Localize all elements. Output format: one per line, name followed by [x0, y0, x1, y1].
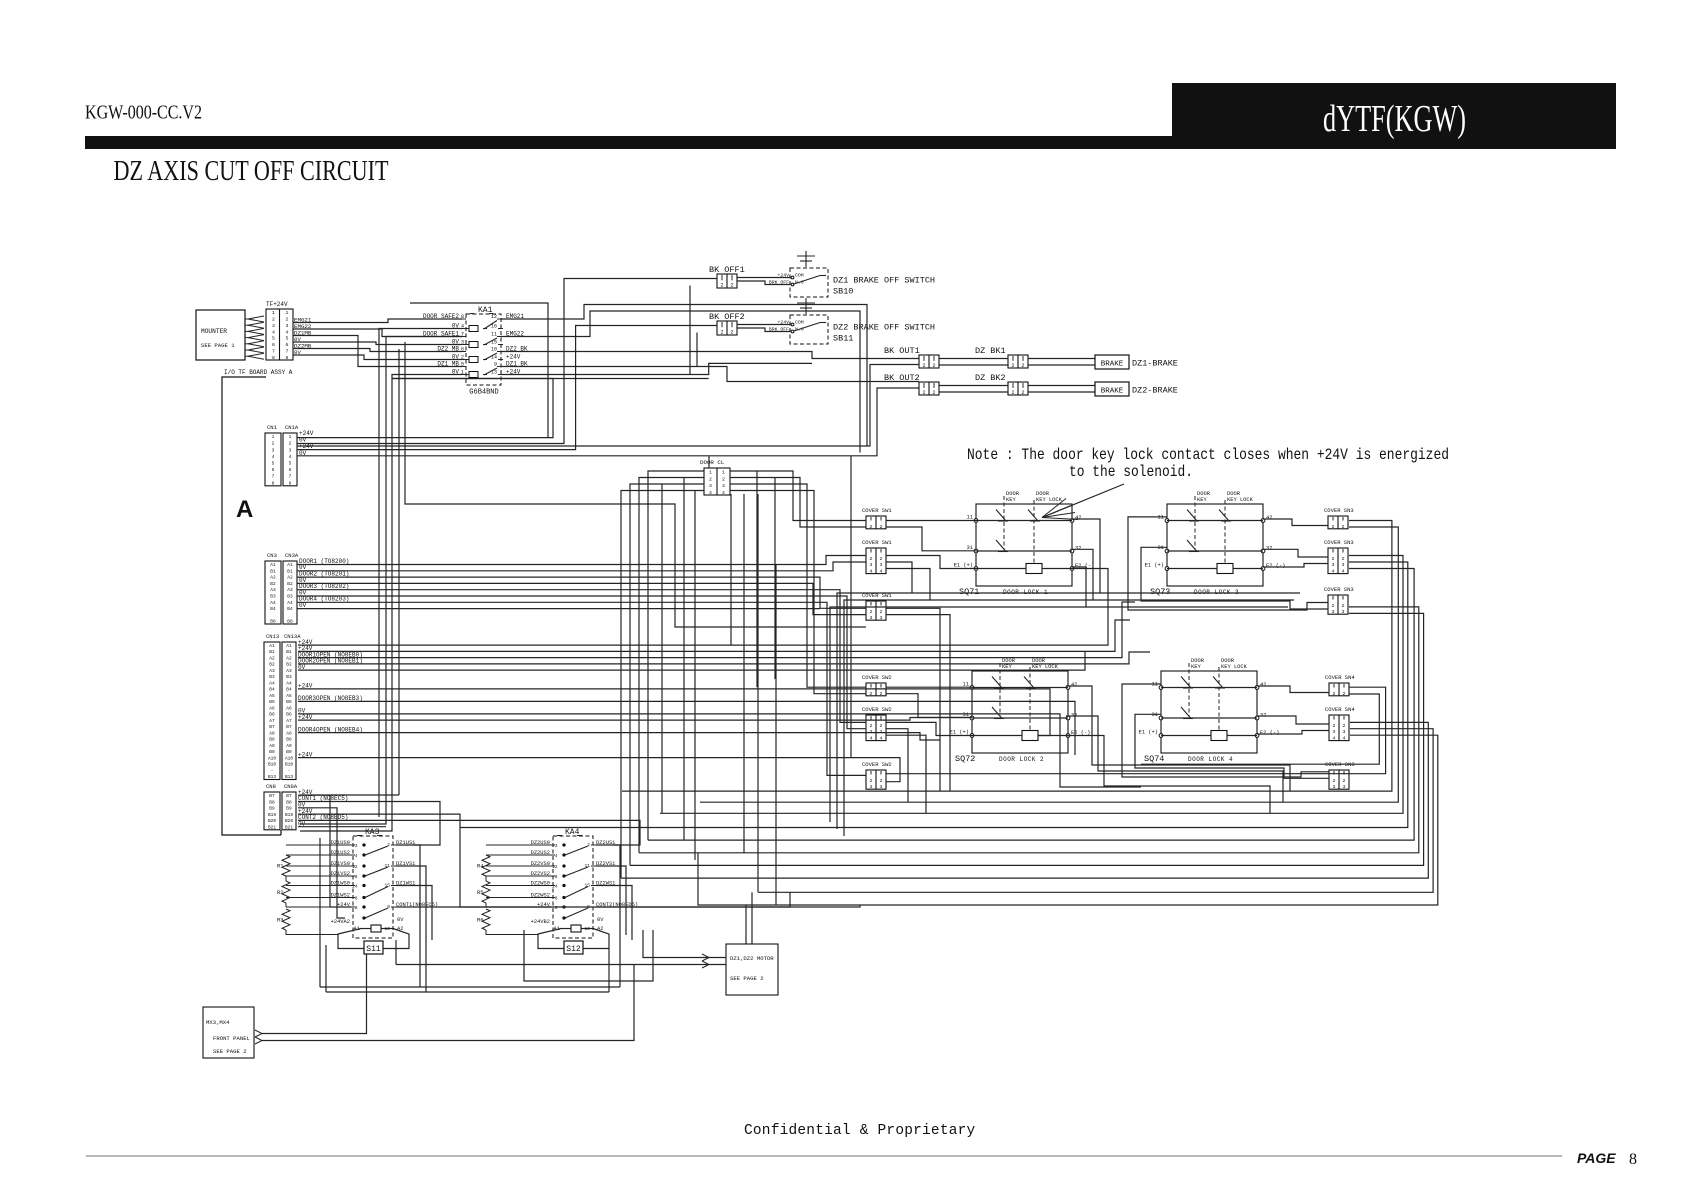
svg-text:R5: R5 [477, 890, 483, 896]
svg-text:2: 2 [1333, 778, 1336, 784]
svg-text:8: 8 [355, 905, 358, 911]
svg-text:DZ BK2: DZ BK2 [975, 373, 1006, 383]
svg-text:KEY: KEY [1197, 497, 1207, 503]
svg-text:2: 2 [932, 390, 935, 396]
svg-text:3: 3 [880, 562, 883, 568]
svg-text:3: 3 [289, 447, 292, 453]
svg-text:B19: B19 [285, 812, 293, 818]
svg-text:31: 31 [1152, 712, 1158, 718]
svg-text:A8: A8 [269, 730, 275, 736]
svg-text:1: 1 [272, 310, 275, 316]
svg-text:COVER SN3: COVER SN3 [1324, 507, 1354, 514]
svg-text:A4: A4 [287, 600, 293, 606]
svg-text:11: 11 [491, 332, 497, 338]
svg-text:S12: S12 [566, 945, 581, 954]
svg-text:A2: A2 [287, 575, 293, 581]
svg-text:E1 (+): E1 (+) [1139, 730, 1158, 736]
svg-text:S11: S11 [366, 945, 381, 954]
box MX3,MX4 FRONT PANEL [203, 1007, 254, 1058]
svg-text:B9: B9 [286, 749, 292, 755]
note pointer arrow [1042, 484, 1124, 518]
black banner [1172, 83, 1616, 148]
svg-text:11: 11 [967, 515, 973, 521]
svg-text:E1 (+): E1 (+) [954, 563, 973, 569]
svg-text:B8: B8 [269, 799, 275, 805]
svg-text:SEE PAGE 2: SEE PAGE 2 [730, 975, 764, 982]
mounter box [196, 310, 245, 360]
svg-text:2: 2 [1021, 390, 1024, 396]
svg-text:8: 8 [355, 874, 358, 880]
svg-text:8: 8 [272, 480, 275, 486]
wire group: KA1 right to BK OUT rows [501, 352, 919, 359]
svg-text:DOOR CL: DOOR CL [700, 459, 725, 466]
svg-text:DZ2-BRAKE: DZ2-BRAKE [1132, 386, 1178, 396]
svg-text:3: 3 [355, 843, 358, 849]
svg-text:B7: B7 [286, 793, 292, 799]
door lock SQ72 [972, 671, 1068, 753]
svg-text:KEY LOCK: KEY LOCK [1227, 497, 1254, 503]
svg-text:to the solenoid.: to the solenoid. [1069, 463, 1193, 481]
svg-text:G6B4BND: G6B4BND [469, 389, 498, 397]
svg-text:6: 6 [555, 896, 558, 902]
svg-text:B8: B8 [286, 737, 292, 743]
svg-text:4: 4 [709, 490, 712, 496]
svg-text:B7: B7 [269, 724, 275, 730]
svg-text:0V: 0V [397, 917, 404, 923]
wire group: bottom loops / motor / front panel [419, 930, 421, 987]
svg-text:3: 3 [1333, 729, 1336, 735]
svg-text:8: 8 [555, 905, 558, 911]
svg-text:A4: A4 [286, 680, 292, 686]
svg-text:6: 6 [272, 342, 275, 348]
svg-text:4: 4 [1333, 736, 1336, 742]
svg-text:2: 2 [870, 556, 873, 562]
svg-text:2: 2 [1021, 363, 1024, 369]
svg-text:SQ71: SQ71 [959, 587, 979, 597]
footer rule [86, 1155, 1562, 1157]
svg-text:A3: A3 [286, 668, 292, 674]
svg-text:COVER SN4: COVER SN4 [1325, 674, 1355, 681]
svg-text:B8: B8 [287, 619, 293, 625]
wire group: CN13A rows east [298, 569, 1108, 646]
svg-text:B2: B2 [287, 581, 293, 587]
wire group: left vertical bundle [379, 329, 462, 818]
svg-text:2: 2 [1333, 723, 1336, 729]
svg-text:PAGE: PAGE [1577, 1150, 1616, 1166]
svg-text:B2: B2 [269, 662, 275, 668]
svg-text:B9: B9 [269, 806, 275, 812]
svg-text:1: 1 [272, 434, 275, 440]
svg-text:Confidential & Proprietary: Confidential & Proprietary [744, 1123, 976, 1139]
svg-text:CN8: CN8 [266, 783, 276, 790]
svg-text:A5: A5 [286, 693, 292, 699]
svg-text:2: 2 [1342, 603, 1345, 609]
svg-text:B2: B2 [286, 662, 292, 668]
svg-text:B1: B1 [269, 649, 275, 655]
svg-text:COM: COM [795, 319, 804, 325]
wire group: DOOR CL east drops to COVER SW [730, 471, 866, 521]
svg-text:B3: B3 [269, 674, 275, 680]
svg-text:2: 2 [1333, 691, 1336, 697]
door lock SQ73 [1167, 504, 1263, 586]
svg-text:4: 4 [870, 569, 873, 575]
svg-text:SEE PAGE 2: SEE PAGE 2 [213, 1048, 247, 1055]
svg-text:2: 2 [870, 691, 873, 697]
svg-text:11: 11 [963, 682, 969, 688]
svg-text:A6: A6 [269, 705, 275, 711]
svg-text:2: 2 [880, 723, 883, 729]
wire group: CN3A rows east [297, 556, 866, 565]
svg-text:-: - [271, 769, 274, 774]
svg-text:0V: 0V [299, 602, 307, 609]
svg-text:3: 3 [1332, 562, 1335, 568]
svg-text:COVER SW1: COVER SW1 [862, 539, 892, 546]
svg-text:COVER SW2: COVER SW2 [862, 674, 892, 681]
box DZ1,DZ2 MOTOR [726, 944, 778, 995]
svg-text:2: 2 [587, 842, 590, 848]
svg-text:32: 32 [1266, 546, 1272, 552]
svg-text:B3: B3 [286, 674, 292, 680]
svg-text:9: 9 [387, 904, 390, 910]
svg-text:12: 12 [552, 864, 558, 870]
door lock SQ71 [976, 504, 1072, 586]
svg-text:SQ72: SQ72 [955, 754, 975, 764]
svg-text:3: 3 [870, 615, 873, 621]
svg-text:B21: B21 [268, 824, 276, 830]
svg-text:3: 3 [555, 843, 558, 849]
svg-text:COVER SN3: COVER SN3 [1324, 539, 1354, 546]
svg-text:KEY LOCK: KEY LOCK [1221, 664, 1248, 670]
svg-text:dYTF(KGW): dYTF(KGW) [1323, 98, 1466, 140]
svg-text:2: 2 [880, 609, 883, 615]
svg-text:DOOR3 (TO8202): DOOR3 (TO8202) [299, 583, 349, 590]
wire group: bottom-right bundle [1141, 694, 1379, 764]
svg-text:B1: B1 [287, 568, 293, 574]
svg-text:3: 3 [870, 784, 873, 790]
svg-text:A2: A2 [270, 575, 276, 581]
svg-text:32: 32 [1075, 546, 1081, 552]
svg-text:4: 4 [1343, 736, 1346, 742]
svg-text:MOUNTER: MOUNTER [201, 328, 227, 335]
svg-text:2: 2 [880, 778, 883, 784]
svg-text:A10: A10 [268, 755, 276, 761]
svg-text:B8: B8 [286, 799, 292, 805]
KA1 coils [469, 326, 478, 332]
svg-text:4: 4 [722, 490, 725, 496]
svg-text:A7: A7 [269, 718, 275, 724]
svg-text:2: 2 [1342, 556, 1345, 562]
wires into motor box top [745, 905, 747, 944]
svg-text:B2: B2 [270, 581, 276, 587]
svg-text:7: 7 [289, 474, 292, 480]
svg-text:2: 2 [1011, 363, 1014, 369]
wire group: big loop around KA1 [410, 303, 548, 438]
svg-text:B10: B10 [285, 762, 293, 768]
svg-text:9: 9 [494, 362, 497, 368]
svg-text:B6: B6 [269, 712, 275, 718]
svg-text:A10: A10 [285, 755, 293, 761]
svg-text:A1: A1 [286, 643, 292, 649]
svg-text:DZ1 BRAKE OFF SWITCH: DZ1 BRAKE OFF SWITCH [833, 276, 935, 286]
svg-text:R2: R2 [277, 890, 283, 896]
svg-text:2: 2 [1343, 691, 1346, 697]
svg-text:SQ73: SQ73 [1150, 587, 1170, 597]
wire group: DOOR CL west drops to bottom bundle [648, 471, 704, 840]
svg-text:1: 1 [709, 470, 712, 476]
svg-text:B5: B5 [269, 699, 275, 705]
svg-text:-: - [288, 769, 291, 774]
svg-text:2: 2 [870, 524, 873, 530]
svg-text:KEY: KEY [1006, 497, 1016, 503]
svg-text:31: 31 [967, 545, 973, 551]
svg-text:B4: B4 [287, 606, 293, 612]
svg-text:2: 2 [720, 330, 723, 336]
wires mounter to TF connector [245, 318, 250, 320]
svg-text:A1: A1 [270, 562, 276, 568]
svg-text:3: 3 [880, 615, 883, 621]
svg-text:MX3,MX4: MX3,MX4 [206, 1019, 230, 1026]
svg-text:3: 3 [1343, 729, 1346, 735]
svg-text:2: 2 [870, 723, 873, 729]
svg-text:KEY LOCK: KEY LOCK [1032, 664, 1059, 670]
svg-text:+24VA2: +24VA2 [331, 919, 350, 925]
svg-text:3: 3 [722, 483, 725, 489]
svg-text:SEE PAGE 1: SEE PAGE 1 [201, 342, 235, 349]
svg-text:3: 3 [1332, 609, 1335, 615]
svg-text:COM: COM [795, 272, 804, 278]
switch box S11 [338, 929, 364, 949]
svg-text:8: 8 [272, 355, 275, 361]
key cross symbol [805, 251, 807, 267]
svg-text:B6: B6 [286, 712, 292, 718]
svg-text:10: 10 [491, 347, 497, 353]
svg-text:SQ74: SQ74 [1144, 754, 1164, 764]
svg-text:KEY LOCK: KEY LOCK [1036, 497, 1063, 503]
KA1 contacts [482, 328, 484, 330]
svg-text:DZ2 BRAKE OFF SWITCH: DZ2 BRAKE OFF SWITCH [833, 323, 935, 333]
svg-text:1: 1 [286, 310, 289, 316]
svg-text:3: 3 [286, 323, 289, 329]
svg-text:A1: A1 [269, 643, 275, 649]
svg-text:2: 2 [1332, 524, 1335, 530]
svg-text:3: 3 [870, 562, 873, 568]
wire group: CN1A to brake-off connectors [297, 379, 553, 438]
svg-text:31: 31 [1158, 545, 1164, 551]
svg-text:DZ BK1: DZ BK1 [975, 346, 1006, 356]
svg-text:B8: B8 [269, 737, 275, 743]
svg-text:BRAKE: BRAKE [1101, 388, 1124, 396]
svg-text:2: 2 [387, 842, 390, 848]
svg-text:B8: B8 [270, 619, 276, 625]
svg-text:2: 2 [922, 363, 925, 369]
twisted pair chevrons [248, 316, 264, 322]
svg-text:6: 6 [272, 467, 275, 473]
svg-text:A6: A6 [286, 705, 292, 711]
switch box S12 [538, 929, 564, 949]
svg-text:7: 7 [272, 348, 275, 354]
svg-text:COVER SN4: COVER SN4 [1325, 706, 1355, 713]
svg-text:3: 3 [880, 784, 883, 790]
svg-text:2: 2 [1332, 556, 1335, 562]
svg-text:B13: B13 [268, 774, 276, 780]
brake box DZ1-BRAKE [1095, 355, 1129, 369]
svg-text:3: 3 [1342, 562, 1345, 568]
svg-text:CN3A: CN3A [285, 552, 299, 559]
svg-text:2: 2 [730, 330, 733, 336]
svg-text:12: 12 [491, 314, 497, 320]
svg-text:2: 2 [730, 283, 733, 289]
svg-text:6: 6 [355, 896, 358, 902]
svg-text:A8: A8 [286, 730, 292, 736]
svg-text:B3: B3 [287, 593, 293, 599]
svg-text:8: 8 [286, 355, 289, 361]
door lock SQ74 [1161, 671, 1257, 753]
svg-text:B5: B5 [286, 699, 292, 705]
svg-text:SB11: SB11 [833, 334, 853, 344]
svg-text:CN8A: CN8A [284, 783, 298, 790]
svg-text:4: 4 [555, 853, 558, 859]
svg-text:B10: B10 [268, 762, 276, 768]
svg-text:3: 3 [272, 323, 275, 329]
svg-text:4: 4 [355, 853, 358, 859]
svg-text:6: 6 [289, 467, 292, 473]
svg-text:KGW-000-CC.V2: KGW-000-CC.V2 [85, 102, 202, 124]
svg-text:4: 4 [272, 329, 275, 335]
svg-text:3: 3 [1343, 784, 1346, 790]
black rule [85, 136, 1616, 149]
svg-text:BRAKE: BRAKE [1101, 361, 1124, 369]
svg-text:BK OUT1: BK OUT1 [884, 346, 920, 356]
switch SB10 [790, 268, 828, 297]
svg-text:A9: A9 [286, 743, 292, 749]
wire group: resistor nets [286, 844, 351, 846]
svg-text:2: 2 [1343, 778, 1346, 784]
svg-text:4: 4 [1342, 569, 1345, 575]
svg-text:4: 4 [272, 454, 275, 460]
svg-text:A4: A4 [269, 680, 275, 686]
svg-text:12: 12 [352, 864, 358, 870]
svg-text:42: 42 [1260, 682, 1266, 688]
svg-text:3: 3 [1333, 784, 1336, 790]
key cross symbol [805, 298, 807, 314]
svg-text:1: 1 [289, 434, 292, 440]
svg-text:2: 2 [1342, 524, 1345, 530]
svg-text:FRONT PANEL: FRONT PANEL [213, 1035, 250, 1042]
svg-text:COVER SW2: COVER SW2 [862, 761, 892, 768]
svg-text:2: 2 [289, 441, 292, 447]
svg-text:CN3: CN3 [267, 552, 277, 559]
svg-text:E1 (+): E1 (+) [1145, 563, 1164, 569]
svg-text:+24VB2: +24VB2 [531, 919, 550, 925]
svg-text:DOOR1 (TO8200): DOOR1 (TO8200) [299, 558, 349, 565]
svg-text:DZ AXIS CUT OFF CIRCUIT: DZ AXIS CUT OFF CIRCUIT [114, 156, 389, 187]
svg-text:2: 2 [272, 317, 275, 323]
svg-text:8: 8 [1629, 1151, 1637, 1168]
svg-text:E2 (-): E2 (-) [1266, 563, 1285, 569]
svg-text:7: 7 [286, 348, 289, 354]
svg-text:DZ1-BRAKE: DZ1-BRAKE [1132, 359, 1178, 369]
svg-text:2: 2 [709, 476, 712, 482]
svg-text:2: 2 [932, 363, 935, 369]
svg-text:2: 2 [1343, 723, 1346, 729]
svg-text:5: 5 [272, 336, 275, 342]
wire group: COVER SW right sides to door locks [886, 520, 976, 522]
svg-text:2: 2 [880, 691, 883, 697]
svg-text:B9: B9 [286, 806, 292, 812]
svg-text:SB10: SB10 [833, 287, 853, 297]
svg-text:4: 4 [289, 454, 292, 460]
svg-text:B19: B19 [268, 812, 276, 818]
svg-text:KEY: KEY [1191, 664, 1201, 670]
svg-text:CN13: CN13 [266, 633, 279, 640]
svg-text:A3: A3 [270, 587, 276, 593]
svg-text:3: 3 [709, 483, 712, 489]
svg-text:1: 1 [722, 470, 725, 476]
svg-text:14: 14 [552, 884, 558, 890]
svg-text:4: 4 [880, 569, 883, 575]
svg-text:A9: A9 [269, 743, 275, 749]
svg-text:4: 4 [870, 736, 873, 742]
svg-text:A1: A1 [287, 562, 293, 568]
svg-text:2: 2 [272, 441, 275, 447]
svg-text:42: 42 [1075, 515, 1081, 521]
svg-text:4: 4 [1332, 569, 1335, 575]
svg-text:2: 2 [922, 390, 925, 396]
svg-text:5: 5 [272, 461, 275, 467]
svg-text:2: 2 [1332, 603, 1335, 609]
svg-text:B4: B4 [269, 687, 275, 693]
svg-text:A3: A3 [287, 587, 293, 593]
svg-text:+24V: +24V [506, 353, 521, 360]
svg-text:5: 5 [289, 461, 292, 467]
svg-text:2: 2 [880, 524, 883, 530]
svg-text:5: 5 [286, 336, 289, 342]
svg-text:B7: B7 [269, 793, 275, 799]
svg-text:4: 4 [286, 329, 289, 335]
svg-text:TF+24V: TF+24V [266, 301, 288, 308]
svg-text:CN1: CN1 [267, 424, 278, 431]
svg-text:2: 2 [870, 778, 873, 784]
svg-text:42: 42 [1071, 682, 1077, 688]
svg-text:14: 14 [352, 884, 358, 890]
svg-text:6: 6 [286, 342, 289, 348]
svg-text:KEY: KEY [1002, 664, 1012, 670]
svg-text:A2: A2 [269, 655, 275, 661]
svg-text:DOOR4 (TO8203): DOOR4 (TO8203) [299, 596, 349, 603]
svg-text:A7: A7 [286, 718, 292, 724]
svg-text:B4: B4 [270, 606, 276, 612]
svg-text:A2: A2 [286, 655, 292, 661]
svg-text:B1: B1 [270, 568, 276, 574]
svg-text:B3: B3 [270, 593, 276, 599]
svg-text:A3: A3 [269, 668, 275, 674]
svg-text:DOOR LOCK 2: DOOR LOCK 2 [999, 756, 1044, 763]
svg-text:B1: B1 [286, 649, 292, 655]
wire group: DOOR CL verticals down (top pins) [708, 456, 710, 468]
svg-text:A4: A4 [270, 600, 276, 606]
svg-text:E2 (-): E2 (-) [1260, 730, 1279, 736]
svg-text:COVER SW2: COVER SW2 [862, 706, 892, 713]
wire group: CN8A rows east to KA3/KA4 [298, 795, 351, 907]
svg-text:7: 7 [272, 474, 275, 480]
svg-text:8: 8 [555, 874, 558, 880]
svg-text:2: 2 [1011, 390, 1014, 396]
svg-text:0V: 0V [597, 917, 604, 923]
svg-text:2: 2 [720, 283, 723, 289]
wire group: door lock right sides to COVER SN [1100, 592, 1300, 594]
svg-text:2: 2 [870, 609, 873, 615]
svg-text:B20: B20 [285, 818, 293, 824]
